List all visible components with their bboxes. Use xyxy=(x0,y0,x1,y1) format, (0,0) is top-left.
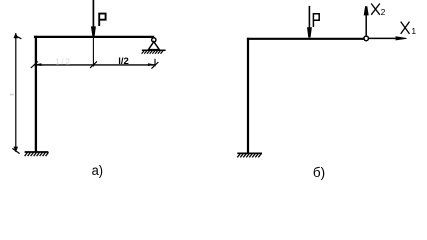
frame a: beam xyxy=(34,36,154,38)
svg-text:1: 1 xyxy=(411,26,416,36)
label P (frame b) xyxy=(313,14,319,27)
label X1 xyxy=(401,22,417,36)
force P arrowhead (frame b) xyxy=(307,27,312,37)
force P arrow line (frame b) xyxy=(308,6,310,29)
node hinge circle (frame b) xyxy=(364,36,369,41)
frame b: beam xyxy=(247,38,364,40)
frame a: column xyxy=(35,36,37,152)
redundant force X2 arrow line xyxy=(365,14,367,37)
fixed support ground line (frame a) xyxy=(25,151,49,153)
redundant force X1 arrow line xyxy=(369,37,399,39)
pin support circle (frame a) xyxy=(152,38,156,42)
dimension extension line right (frame a) xyxy=(154,59,156,67)
svg-text:l/2: l/2 xyxy=(118,56,129,67)
pin support triangle (frame a) xyxy=(148,42,159,50)
vertical dim label l (gray, rotated) xyxy=(10,94,14,96)
svg-text:б): б) xyxy=(313,165,325,180)
dim tick middle xyxy=(90,61,97,68)
frame b: column xyxy=(247,38,249,153)
label X2 xyxy=(371,4,385,18)
redundant force X1 arrowhead xyxy=(396,36,408,40)
vertical dim bottom arrow xyxy=(12,147,19,154)
dim tick left xyxy=(31,61,42,68)
svg-text:а): а) xyxy=(92,162,103,178)
force P arrow line (frame a) xyxy=(92,0,94,28)
horizontal dimension line (frame a) xyxy=(34,64,155,66)
vertical dim top arrow xyxy=(14,33,22,39)
fixed support ground line (frame b) xyxy=(237,152,262,154)
svg-text:2: 2 xyxy=(381,7,386,17)
svg-text:1/2: 1/2 xyxy=(55,57,70,67)
redundant force X2 arrowhead xyxy=(364,6,369,15)
fixed support hatching (frame b) xyxy=(237,154,261,158)
label P (frame a) xyxy=(99,14,105,26)
fixed support hatching (frame a) xyxy=(25,152,49,156)
pin support hatching (frame a) xyxy=(142,51,164,54)
vertical dimension line (frame a) xyxy=(15,33,17,152)
dim tick right xyxy=(148,62,158,69)
dimension extension line under P (frame a) xyxy=(92,38,94,67)
pin support ground line (frame a) xyxy=(142,49,166,51)
force P arrowhead (frame a) xyxy=(91,26,96,36)
